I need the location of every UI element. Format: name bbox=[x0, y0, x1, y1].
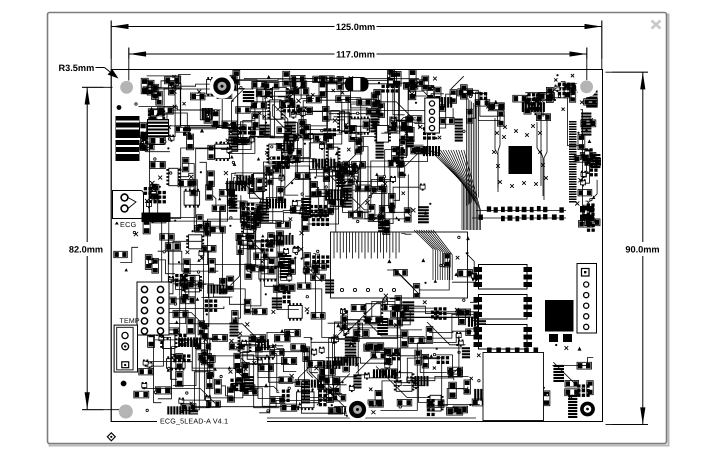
mark TP3 bbox=[183, 102, 186, 105]
capacitor C127 bbox=[148, 332, 155, 348]
mark TP22 bbox=[418, 125, 422, 129]
capacitor C55 bbox=[207, 171, 214, 187]
via bbox=[174, 220, 176, 222]
wire bbox=[303, 111, 370, 126]
resistor R144 bbox=[415, 147, 429, 154]
transistor Q34 bbox=[303, 267, 308, 274]
resistor array R76 bbox=[236, 175, 253, 185]
capacitor C20 bbox=[291, 81, 307, 88]
resistor array R213 bbox=[167, 406, 190, 416]
resistor R169 bbox=[364, 344, 380, 351]
resistor array R23 bbox=[376, 139, 384, 159]
pad array U39 bbox=[261, 239, 274, 252]
resistor R184 bbox=[181, 404, 196, 411]
wire bbox=[145, 147, 152, 217]
capacitor C9 bbox=[152, 129, 168, 136]
origin marker bbox=[107, 433, 115, 441]
wire bbox=[305, 262, 322, 282]
wire bbox=[292, 101, 313, 162]
wire bbox=[169, 313, 208, 330]
resistor R84 bbox=[277, 187, 284, 203]
resistor R155 bbox=[395, 296, 402, 310]
wire bbox=[278, 97, 295, 160]
via bbox=[156, 327, 158, 329]
resistor R18 bbox=[280, 101, 295, 108]
wire bbox=[291, 79, 297, 115]
capacitor C51 bbox=[190, 180, 197, 196]
mark TP90 bbox=[230, 339, 234, 343]
transistor Q60 bbox=[142, 382, 147, 389]
resistor R63 bbox=[227, 189, 234, 205]
polarity mark bbox=[430, 354, 433, 357]
resistor R178 bbox=[134, 391, 149, 398]
capacitor C8 bbox=[141, 78, 148, 94]
resistor R36 bbox=[431, 105, 446, 112]
capacitor C70 bbox=[181, 297, 195, 304]
polarity mark bbox=[159, 215, 163, 219]
capacitor C44 bbox=[539, 93, 555, 100]
via bbox=[220, 375, 222, 377]
polarity mark bbox=[594, 219, 598, 223]
capacitor C140 bbox=[390, 72, 397, 87]
mark TP54 bbox=[347, 148, 351, 152]
wire bbox=[273, 104, 286, 129]
window icon bbox=[652, 21, 661, 29]
pad array U43 bbox=[312, 214, 329, 227]
mark TP70 bbox=[411, 208, 415, 212]
capacitor C98 bbox=[392, 147, 399, 163]
mark TP7 bbox=[296, 99, 300, 103]
resistor array R102 bbox=[273, 235, 293, 245]
transistor Q47 bbox=[456, 332, 461, 339]
wire bbox=[539, 103, 548, 114]
wire bbox=[152, 178, 227, 221]
resistor R192 bbox=[270, 397, 285, 404]
wire bbox=[584, 212, 589, 226]
wire bbox=[209, 356, 300, 382]
transistor Q52 bbox=[413, 382, 418, 389]
wire bbox=[388, 78, 404, 131]
wire bbox=[232, 88, 245, 128]
polarity mark bbox=[336, 323, 340, 327]
capacitor C105 bbox=[395, 305, 409, 312]
via bbox=[174, 303, 176, 305]
via bbox=[206, 313, 208, 315]
polarity mark bbox=[586, 171, 589, 174]
wire bbox=[315, 322, 346, 366]
wire bbox=[345, 126, 380, 189]
transistor Q44 bbox=[471, 272, 476, 279]
wire bbox=[221, 289, 258, 312]
mark TP113 bbox=[304, 209, 307, 212]
polarity mark bbox=[299, 134, 303, 138]
capacitor C5 bbox=[141, 135, 148, 150]
capacitor C69 bbox=[182, 284, 189, 300]
resistor R104 bbox=[250, 265, 265, 272]
pad array U56 bbox=[427, 399, 435, 416]
wire bbox=[262, 211, 327, 212]
IC U59 bbox=[160, 330, 177, 349]
wire bbox=[259, 346, 283, 413]
IC U63 bbox=[256, 345, 274, 359]
wire bbox=[332, 308, 436, 338]
via bbox=[133, 231, 135, 233]
resistor array R1 bbox=[229, 127, 239, 141]
wire bbox=[339, 171, 377, 219]
resistor R153 bbox=[456, 309, 470, 316]
resistor array R150 bbox=[345, 337, 357, 357]
resistor R131 bbox=[343, 358, 350, 372]
via bbox=[230, 132, 232, 134]
resistor R85 bbox=[250, 217, 256, 230]
via bbox=[230, 346, 232, 348]
resistor R140 bbox=[383, 219, 390, 234]
polarity mark bbox=[588, 139, 592, 143]
resistor R187 bbox=[206, 401, 220, 407]
mark TP68 bbox=[402, 192, 405, 195]
via bbox=[207, 116, 209, 118]
via bbox=[240, 367, 242, 369]
wire bbox=[400, 151, 421, 166]
resistor R101 bbox=[245, 264, 252, 279]
wire bbox=[585, 162, 593, 183]
dimension 125.0mm bbox=[111, 21, 602, 70]
wire bbox=[304, 348, 306, 399]
via bbox=[178, 261, 180, 263]
resistor R14 bbox=[252, 82, 267, 89]
resistor array R109 bbox=[301, 198, 311, 218]
mark TP40 bbox=[241, 185, 245, 189]
wire bbox=[200, 251, 212, 327]
via bbox=[297, 406, 299, 408]
resistor array R219 bbox=[342, 185, 352, 208]
mark TP111 bbox=[319, 216, 323, 220]
via bbox=[469, 404, 471, 406]
mark TP14 bbox=[311, 93, 314, 96]
wire bbox=[464, 90, 500, 120]
wire bbox=[195, 400, 331, 406]
resistor array R74 bbox=[259, 202, 269, 222]
wire bbox=[221, 137, 294, 150]
capacitor C135 bbox=[274, 335, 290, 342]
resistor R44 bbox=[498, 111, 505, 126]
IC U2 bbox=[148, 110, 165, 127]
via bbox=[411, 151, 413, 153]
resistor R53 bbox=[574, 156, 588, 163]
capacitor C19 bbox=[277, 127, 292, 133]
via bbox=[585, 162, 587, 164]
transistor Q26 bbox=[199, 250, 204, 257]
resistor R103 bbox=[254, 253, 268, 260]
resistor R5 bbox=[222, 121, 237, 128]
wire bbox=[169, 75, 191, 86]
wire bbox=[305, 381, 330, 403]
wire bbox=[348, 327, 351, 331]
capacitor C24 bbox=[306, 96, 321, 103]
via bbox=[117, 105, 122, 110]
fiducial hole bottom-center bbox=[346, 398, 369, 421]
resistor R129 bbox=[332, 395, 346, 402]
resistor R105 bbox=[244, 299, 251, 314]
capacitor C151 bbox=[330, 199, 345, 206]
transistor Q19 bbox=[146, 201, 151, 208]
wire bbox=[293, 126, 327, 157]
IC U49 bbox=[364, 304, 384, 323]
polarity mark bbox=[264, 383, 268, 387]
transistor Q31 bbox=[293, 247, 298, 254]
wire bbox=[163, 112, 167, 134]
resistor R141 bbox=[379, 206, 394, 213]
resistor R181 bbox=[207, 363, 214, 377]
transistor Q64 bbox=[353, 79, 358, 86]
wire bbox=[311, 110, 369, 134]
wire bbox=[402, 314, 479, 338]
transistor Q28 bbox=[287, 275, 292, 282]
resistor R48 bbox=[546, 87, 553, 102]
IC U33 bbox=[186, 235, 204, 249]
wire bbox=[239, 242, 273, 246]
capacitor C54 bbox=[140, 143, 154, 150]
capacitor C1 bbox=[156, 91, 163, 105]
via bbox=[192, 230, 194, 232]
mark TP16 bbox=[344, 123, 347, 127]
via bbox=[590, 198, 592, 200]
via bbox=[440, 264, 442, 266]
capacitor C95 bbox=[352, 327, 359, 342]
polarity mark bbox=[387, 259, 391, 263]
wire bbox=[370, 348, 466, 378]
mark TP91 bbox=[190, 402, 193, 405]
via bbox=[367, 129, 369, 131]
pad array U15 bbox=[423, 127, 436, 140]
radius leader redraw bbox=[96, 68, 119, 79]
via bbox=[555, 344, 557, 346]
mark TP12 bbox=[299, 124, 303, 128]
wire bbox=[157, 194, 159, 220]
resistor array R49 bbox=[522, 102, 545, 112]
transistor Q65 bbox=[344, 410, 349, 417]
wire bbox=[157, 220, 172, 282]
resistor R28 bbox=[366, 108, 381, 115]
capacitor C129 bbox=[215, 379, 222, 394]
resistor R73 bbox=[182, 158, 189, 172]
resistor R206 bbox=[282, 357, 297, 364]
via bbox=[399, 406, 401, 408]
resistor array R159 bbox=[468, 317, 479, 327]
via bbox=[141, 142, 143, 144]
capacitor C94 bbox=[328, 407, 342, 414]
via bbox=[317, 250, 319, 252]
wire bbox=[234, 364, 242, 376]
mark TP33 bbox=[554, 78, 557, 81]
wire bbox=[531, 104, 534, 107]
wire bbox=[415, 358, 480, 405]
polarity mark bbox=[424, 211, 428, 215]
via bbox=[558, 95, 560, 97]
resistor R56 bbox=[581, 120, 596, 127]
capacitor C141 bbox=[165, 77, 180, 84]
mounting hole top-right bbox=[576, 76, 597, 97]
resistor array R167 bbox=[474, 389, 494, 401]
polarity mark bbox=[578, 347, 582, 351]
mark TP61 bbox=[305, 307, 309, 311]
wire bbox=[327, 338, 333, 398]
resistor R40 bbox=[408, 116, 422, 123]
wire bbox=[303, 175, 305, 221]
wire bbox=[451, 76, 464, 89]
wire bbox=[384, 77, 390, 132]
mark TP94 bbox=[236, 346, 239, 349]
via bbox=[265, 122, 267, 124]
polarity mark bbox=[421, 258, 425, 262]
wire bbox=[326, 358, 386, 364]
capacitor C130 bbox=[139, 368, 153, 375]
pad array U34 bbox=[205, 299, 218, 312]
wire bbox=[251, 213, 327, 224]
polarity mark bbox=[233, 162, 237, 166]
resistor R93 bbox=[160, 234, 174, 240]
resistor R200 bbox=[236, 368, 243, 383]
component clusters bbox=[114, 69, 601, 421]
resistor R17 bbox=[237, 138, 250, 144]
capacitor C2 bbox=[143, 87, 157, 93]
resistor R82 bbox=[276, 143, 291, 150]
via bbox=[154, 158, 156, 160]
resistor R22 bbox=[297, 107, 313, 114]
capacitor C139 bbox=[394, 269, 408, 275]
wire bbox=[373, 102, 415, 120]
wire bbox=[331, 174, 342, 209]
resistor array R91 bbox=[147, 327, 161, 336]
capacitor C78 bbox=[268, 258, 275, 274]
resistor R118 bbox=[327, 199, 333, 212]
capacitor C125 bbox=[543, 391, 550, 406]
transistor Q16 bbox=[151, 190, 156, 197]
wire bbox=[416, 120, 421, 127]
QFP chip U200 bbox=[509, 146, 533, 174]
IC U23 bbox=[166, 168, 180, 185]
wire bbox=[280, 166, 336, 170]
wire bbox=[246, 388, 291, 406]
resistor R145 bbox=[404, 208, 411, 222]
wire bbox=[470, 92, 481, 118]
via bbox=[463, 299, 465, 301]
via bbox=[135, 103, 137, 105]
via bbox=[357, 220, 359, 222]
pad array U30 bbox=[272, 156, 289, 169]
transistor Q25 bbox=[169, 276, 174, 283]
polarity mark bbox=[289, 207, 292, 210]
transistor Q13 bbox=[581, 171, 586, 178]
capacitor C28 bbox=[371, 93, 378, 109]
capacitor C96 bbox=[295, 380, 309, 387]
pad array U17 bbox=[527, 93, 539, 110]
transistor Q59 bbox=[159, 335, 164, 342]
mark TP10 bbox=[288, 95, 291, 98]
pad array U52 bbox=[434, 307, 447, 320]
wire bbox=[410, 380, 434, 402]
via bbox=[383, 175, 385, 177]
capacitor C103 bbox=[457, 270, 472, 277]
pad array U25 bbox=[149, 191, 166, 204]
resistor R25 bbox=[349, 125, 356, 141]
capacitor C65 bbox=[227, 276, 234, 291]
wire bbox=[277, 348, 297, 371]
dimension 117.0mm bbox=[129, 48, 587, 81]
module outline M1 bbox=[331, 232, 468, 298]
wire bbox=[581, 150, 591, 157]
via bbox=[503, 380, 505, 382]
wire bbox=[400, 118, 412, 122]
wire bbox=[235, 171, 274, 173]
via bbox=[399, 371, 401, 373]
wire bbox=[581, 110, 588, 215]
transistor Q53 bbox=[364, 372, 369, 379]
wire bbox=[160, 126, 181, 134]
mark TP101 bbox=[134, 232, 138, 236]
mark TP96 bbox=[238, 332, 242, 336]
IC U27 bbox=[251, 173, 267, 191]
resistor array R26 bbox=[370, 109, 379, 132]
wire bbox=[147, 260, 175, 274]
mark TP4 bbox=[172, 89, 176, 93]
polarity mark bbox=[494, 100, 498, 104]
capacitor C137 bbox=[507, 368, 521, 374]
wire bbox=[293, 159, 316, 161]
via bbox=[232, 161, 234, 163]
transistor Q20 bbox=[279, 175, 284, 182]
mark TP43 bbox=[268, 156, 272, 160]
capacitor C84 bbox=[355, 139, 362, 154]
via bbox=[232, 100, 234, 102]
IC U13 bbox=[374, 126, 391, 143]
polarity mark bbox=[218, 197, 221, 200]
resistor R139 bbox=[585, 158, 601, 165]
mark TP75 bbox=[455, 308, 459, 312]
wire bbox=[247, 346, 279, 399]
pad array U8 bbox=[239, 127, 256, 135]
mark TP41 bbox=[289, 217, 293, 220]
resistor R180 bbox=[176, 354, 183, 369]
resistor R43 bbox=[490, 103, 505, 110]
wire bbox=[356, 357, 377, 374]
transistor Q41 bbox=[580, 179, 585, 186]
wire bbox=[318, 82, 337, 85]
mark TP106 bbox=[423, 85, 427, 89]
ECG connector J1 bbox=[113, 191, 144, 219]
capacitor C147 bbox=[230, 75, 237, 90]
transistor Q62 bbox=[242, 340, 247, 347]
resistor R128 bbox=[327, 388, 334, 403]
polarity mark bbox=[497, 378, 501, 382]
wire bbox=[225, 183, 264, 198]
wire bbox=[553, 362, 578, 385]
wire bbox=[206, 334, 208, 358]
wire bbox=[155, 148, 227, 219]
pad array U65 bbox=[230, 379, 243, 391]
resistor R132 bbox=[318, 375, 325, 390]
wire bbox=[120, 247, 138, 262]
wire bbox=[588, 180, 597, 203]
svg-text:82.0mm: 82.0mm bbox=[69, 245, 103, 255]
polarity mark bbox=[250, 175, 253, 178]
mark TP29 bbox=[590, 118, 593, 121]
via bbox=[260, 341, 262, 343]
resistor R166 bbox=[381, 369, 397, 376]
wire bbox=[146, 362, 213, 371]
mark TP8 bbox=[263, 115, 266, 118]
transistor Q56 bbox=[147, 361, 152, 368]
